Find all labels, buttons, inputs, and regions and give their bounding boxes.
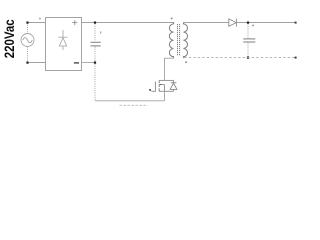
MOSFET Q1 gate terminal mark [149,89,151,91]
small mark right of C1 top [100,31,101,33]
svg-text:220Vac: 220Vac [2,19,17,58]
MOSFET Q1 body diode [170,80,177,91]
wire bridge + output to transformer (top rail) [82,22,175,24]
MOSFET Q1 channel segments [158,80,160,91]
dashed stub below return [120,104,148,106]
wire secondary top to diode D1 [184,22,229,24]
wire MOSFET source down to return [164,91,166,101]
bridge plus label [72,20,77,25]
wire AC bottom to bridge [29,62,46,64]
wire primary bottom to MOSFET drain [165,58,174,80]
diode D1 [229,19,237,27]
junction dot bottom of C1 [94,62,96,64]
capacitor C2 output [243,24,255,57]
wire dashed secondary bottom rail [184,57,295,59]
MOSFET Q1 drain/source horizontals [159,80,173,91]
junction dot output top [247,22,249,24]
MOSFET Q1 gate bar [151,82,155,92]
AC source V1 [21,23,34,63]
junction dot top of C1 [94,22,96,24]
wire dotted return vertical from C1 junction down [94,64,96,101]
terminal dot output - [295,57,297,59]
polarity dot secondary [185,61,187,63]
terminal dot AC top [26,22,28,24]
terminal dot output + [295,22,297,24]
small plus mark near output junction [252,25,254,27]
wire return horizontal to MOSFET source [95,100,165,102]
wire diode to output junction [237,22,296,24]
junction dot output bottom [247,57,249,59]
bridge rectifier BR1 box [46,18,82,71]
transformer T1 primary winding [169,23,174,59]
wire AC top to bridge [29,22,46,24]
transformer core lines [177,24,179,56]
phase mark near AC top [39,18,41,20]
capacitor C1 bulk [91,24,101,62]
bridge minus label [74,62,79,64]
bridge rectifier internal diode [58,30,67,50]
AC source V1 label 220Vac [2,19,17,58]
wire bridge - output to cap junction [82,62,96,64]
transformer T1 secondary winding [183,23,187,58]
polarity dot primary [171,18,173,20]
MOSFET Q1 body arrow [159,84,161,86]
terminal dot AC bottom [26,62,28,64]
